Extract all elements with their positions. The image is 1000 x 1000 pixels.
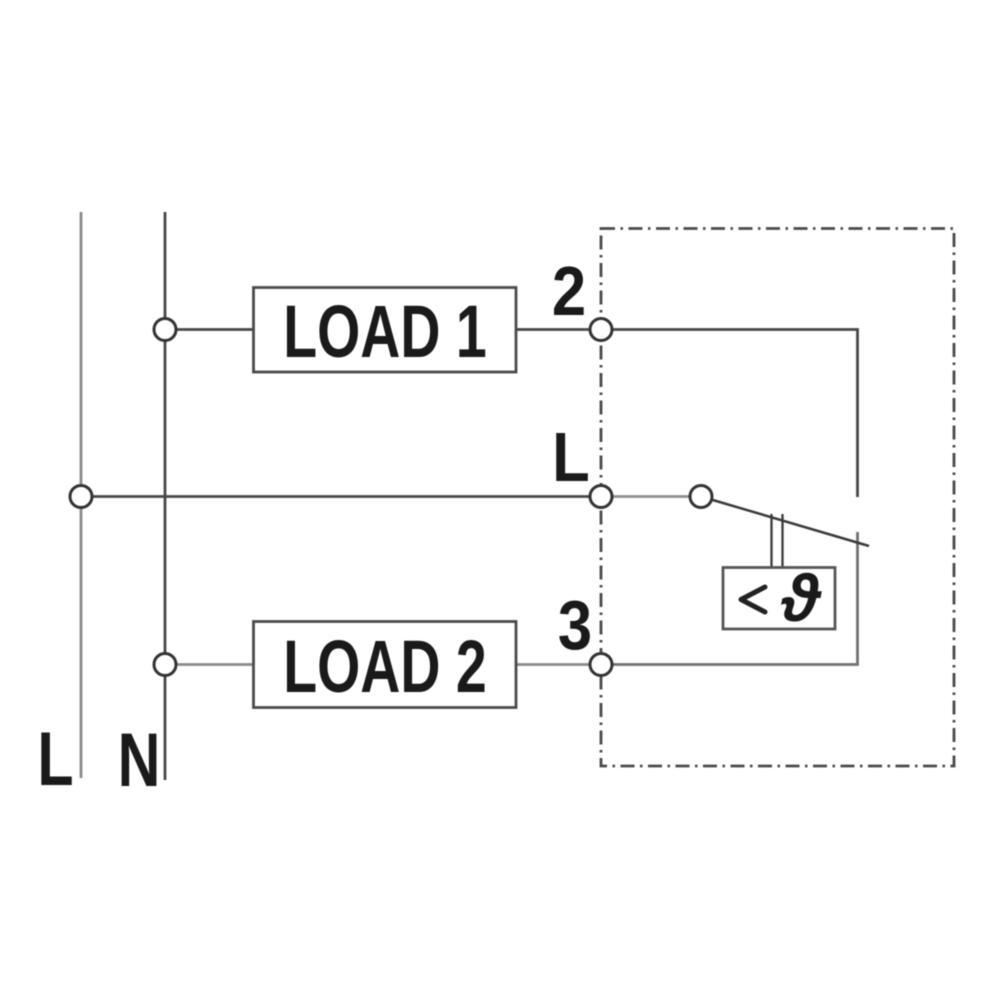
switch blade [706,498,869,546]
svg-text:L: L [552,417,590,496]
wire L rail to terminal L [81,495,601,498]
node N-LOAD2 junction [154,654,176,676]
svg-text:3: 3 [558,585,592,664]
terminal L [590,486,612,508]
load box LOAD 2 [254,622,517,708]
load box LOAD 1 [254,288,517,373]
wire N rail [164,212,167,780]
label < in sensor box [741,587,765,612]
thermal actuator linkage [772,514,783,568]
wire terminal 3 to switch lower contact [601,532,858,665]
svg-text:ϑ: ϑ [780,561,822,635]
svg-text:LOAD 2: LOAD 2 [283,625,486,708]
wire N to LOAD 2 [165,663,254,666]
terminal 2 [590,319,612,341]
terminal 3 [590,654,612,676]
node L junction [70,486,92,508]
wire terminal L to switch pivot [601,495,701,498]
wire L rail [80,212,83,778]
svg-text:2: 2 [552,251,586,330]
svg-text:N: N [118,718,161,803]
node N-LOAD1 junction [154,319,176,341]
thermostat enclosure (dash-dot boundary) [601,229,954,767]
switch pivot [690,486,712,508]
svg-text:L: L [37,717,73,802]
wire terminal 2 to switch upper contact [601,330,858,498]
wire N to LOAD 1 [165,328,254,331]
svg-text:LOAD 1: LOAD 1 [283,290,486,373]
temperature sensor box [723,568,835,630]
wire LOAD 1 to terminal 2 [516,328,601,331]
wire LOAD 2 to terminal 3 [516,663,601,666]
